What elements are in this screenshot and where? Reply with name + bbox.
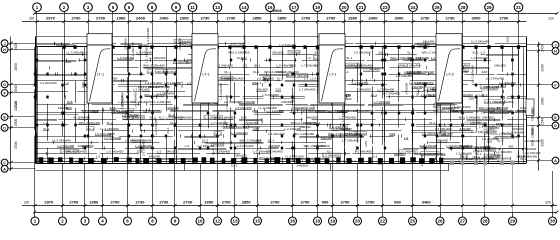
svg-text:240x500: 240x500 bbox=[359, 88, 371, 92]
svg-text:240x500: 240x500 bbox=[145, 160, 157, 164]
svg-text:240x500: 240x500 bbox=[167, 106, 179, 110]
grid bubble top 14 bbox=[240, 3, 249, 14]
svg-text:27: 27 bbox=[460, 219, 466, 224]
grid bubble bottom 9 bbox=[171, 212, 179, 225]
svg-text:L-3: L-3 bbox=[243, 63, 248, 67]
svg-text:13726: 13726 bbox=[14, 101, 18, 111]
svg-text:2000: 2000 bbox=[541, 97, 545, 105]
svg-text:14: 14 bbox=[241, 5, 247, 10]
svg-text:2790: 2790 bbox=[499, 16, 509, 21]
svg-text:L-2 240x400: L-2 240x400 bbox=[237, 144, 254, 148]
svg-text:L-3: L-3 bbox=[481, 50, 486, 54]
svg-text:L-5 240x450: L-5 240x450 bbox=[262, 93, 279, 97]
svg-text:2700: 2700 bbox=[183, 199, 193, 204]
grid bubble top 19 bbox=[313, 3, 322, 14]
svg-text:10: 10 bbox=[197, 219, 203, 224]
svg-text:2700: 2700 bbox=[111, 199, 121, 204]
svg-text:WKL-2 240x450: WKL-2 240x450 bbox=[399, 64, 421, 68]
grid bubble right J bbox=[526, 42, 559, 49]
svg-text:240x450: 240x450 bbox=[78, 144, 90, 148]
svg-text:TL-2: TL-2 bbox=[324, 159, 330, 163]
svg-text:18: 18 bbox=[315, 219, 321, 224]
svg-text:22: 22 bbox=[380, 219, 386, 224]
svg-text:220: 220 bbox=[548, 17, 554, 21]
svg-text:XL-1: XL-1 bbox=[202, 139, 209, 143]
grid bubble top 1 bbox=[33, 3, 42, 14]
svg-text:L-1 240x450: L-1 240x450 bbox=[157, 91, 174, 95]
svg-text:L-3: L-3 bbox=[299, 106, 304, 110]
grid bubble top 26 bbox=[433, 3, 442, 14]
svg-text:L-3: L-3 bbox=[373, 155, 378, 159]
svg-text:WKL-2 240x450: WKL-2 240x450 bbox=[459, 115, 481, 119]
svg-text:2400: 2400 bbox=[160, 16, 170, 21]
grid bubble right A bbox=[526, 157, 559, 164]
svg-text:1650: 1650 bbox=[204, 199, 214, 204]
svg-text:2|18: 2|18 bbox=[496, 122, 502, 126]
svg-text:D: D bbox=[554, 124, 557, 128]
grid bubble left D bbox=[1, 124, 35, 131]
svg-text:TL-1: TL-1 bbox=[58, 159, 64, 163]
grid bubble top 6 bbox=[125, 3, 134, 14]
svg-text:17: 17 bbox=[291, 5, 297, 10]
svg-text:3300: 3300 bbox=[14, 141, 18, 149]
svg-text:XL-1: XL-1 bbox=[255, 81, 262, 85]
columns along top wall bbox=[62, 45, 520, 49]
svg-text:TL-1: TL-1 bbox=[297, 159, 303, 163]
right dim tick bbox=[537, 116, 540, 119]
svg-text:240x500: 240x500 bbox=[306, 115, 318, 119]
grid bubble top 21 bbox=[357, 3, 366, 14]
right rotated dim numbers bbox=[541, 44, 545, 147]
svg-text:XL-1: XL-1 bbox=[474, 155, 480, 159]
svg-text:H: H bbox=[3, 48, 6, 52]
svg-text:2700: 2700 bbox=[96, 16, 106, 21]
svg-text:LL-3 240x450: LL-3 240x450 bbox=[52, 138, 71, 142]
svg-text:2730: 2730 bbox=[446, 16, 456, 21]
svg-text:LL-3 240x450: LL-3 240x450 bbox=[519, 155, 537, 159]
svg-text:T-1: T-1 bbox=[83, 159, 87, 163]
svg-text:16: 16 bbox=[267, 5, 273, 10]
svg-text:WKL-2 240x450: WKL-2 240x450 bbox=[293, 106, 315, 110]
svg-text:L-2 240x400: L-2 240x400 bbox=[216, 63, 233, 67]
left vertical dimension line 13726 bbox=[10, 37, 12, 171]
svg-text:XL-1: XL-1 bbox=[225, 76, 232, 80]
svg-text:240x500: 240x500 bbox=[180, 43, 192, 47]
svg-text:2790: 2790 bbox=[341, 199, 351, 204]
svg-text:2850: 2850 bbox=[253, 16, 263, 21]
svg-text:2790: 2790 bbox=[301, 199, 311, 204]
grid bubble bottom 26 bbox=[436, 212, 444, 225]
svg-text:WKL-2 240x450: WKL-2 240x450 bbox=[293, 132, 315, 136]
grid bubble bottom 13 bbox=[231, 212, 239, 225]
svg-text:L-3: L-3 bbox=[513, 135, 518, 139]
grid bubble top 8 bbox=[148, 3, 157, 14]
small interior dimension marks bbox=[47, 42, 521, 160]
svg-text:QL-1: QL-1 bbox=[268, 138, 275, 142]
left dim tick bbox=[10, 48, 13, 51]
right side bay window protrusion bbox=[526, 99, 534, 116]
svg-text:L-2 240x400: L-2 240x400 bbox=[268, 132, 285, 136]
stair shaft LT-3 bbox=[436, 34, 462, 103]
svg-text:240x500: 240x500 bbox=[485, 131, 496, 135]
svg-text:29: 29 bbox=[486, 5, 492, 10]
grid bubble top 23 bbox=[381, 3, 390, 14]
svg-text:1650: 1650 bbox=[89, 199, 99, 204]
svg-text:L-1 240x450: L-1 240x450 bbox=[149, 56, 166, 60]
svg-text:3300: 3300 bbox=[541, 139, 545, 147]
svg-text:WKL-2 240x450: WKL-2 240x450 bbox=[149, 100, 171, 104]
svg-text:LL-3 240x450: LL-3 240x450 bbox=[100, 127, 119, 131]
svg-text:L-2 240x400: L-2 240x400 bbox=[231, 131, 248, 135]
balcony lower outline bbox=[36, 170, 450, 172]
svg-text:J: J bbox=[4, 42, 6, 46]
svg-text:26: 26 bbox=[434, 5, 440, 10]
svg-text:WKL-2 240x450: WKL-2 240x450 bbox=[489, 157, 510, 161]
grid bubble bottom 1 bbox=[31, 212, 39, 225]
svg-text:2400: 2400 bbox=[369, 16, 379, 21]
svg-text:28: 28 bbox=[482, 219, 488, 224]
svg-text:TL-2: TL-2 bbox=[309, 159, 315, 163]
left dim tick bbox=[10, 161, 13, 164]
svg-text:XL-1: XL-1 bbox=[159, 115, 166, 119]
left dim tick bbox=[10, 83, 13, 86]
interior dimension chain right section bbox=[452, 148, 523, 150]
svg-text:QL-1: QL-1 bbox=[292, 154, 296, 161]
svg-text:L-3: L-3 bbox=[481, 110, 486, 114]
grid bubble bottom 28 bbox=[481, 212, 489, 225]
svg-text:L-7 240x400: L-7 240x400 bbox=[266, 149, 283, 153]
grid bubble top 20 bbox=[340, 3, 349, 14]
svg-text:2730: 2730 bbox=[201, 16, 211, 21]
svg-text:21: 21 bbox=[358, 5, 364, 10]
svg-text:LL-3 240x450: LL-3 240x450 bbox=[471, 39, 490, 43]
svg-text:L-2 240x400: L-2 240x400 bbox=[243, 125, 260, 129]
svg-text:L-2 240x400: L-2 240x400 bbox=[396, 74, 413, 78]
svg-text:13: 13 bbox=[232, 219, 238, 224]
grid bubble left H bbox=[1, 46, 35, 53]
svg-text:1540: 1540 bbox=[541, 118, 545, 126]
svg-text:L-1 240x450: L-1 240x450 bbox=[145, 46, 149, 63]
right side annotation cluster bbox=[454, 95, 541, 161]
svg-text:QL-1: QL-1 bbox=[211, 148, 215, 155]
svg-text:31: 31 bbox=[516, 5, 522, 10]
top dimension line with segment dims bbox=[22, 21, 527, 23]
svg-text:L-2 240x400: L-2 240x400 bbox=[40, 81, 57, 85]
grid bubble bottom 16 bbox=[289, 212, 297, 225]
svg-text:990: 990 bbox=[322, 199, 329, 204]
svg-text:LL-3 240x450: LL-3 240x450 bbox=[259, 106, 278, 110]
svg-text:L-1 240x450: L-1 240x450 bbox=[496, 150, 512, 154]
svg-text:LL-3 240x450: LL-3 240x450 bbox=[146, 27, 150, 46]
grid bubble bottom 4 bbox=[99, 212, 107, 225]
svg-text:XL-1: XL-1 bbox=[346, 56, 353, 60]
svg-text:29: 29 bbox=[510, 219, 516, 224]
svg-text:L-2 240x400: L-2 240x400 bbox=[481, 85, 498, 89]
grid bubble top 5 bbox=[109, 3, 118, 14]
svg-text:XL-1: XL-1 bbox=[166, 127, 170, 134]
svg-text:QL-1: QL-1 bbox=[378, 50, 385, 54]
svg-text:XL-1: XL-1 bbox=[407, 50, 414, 54]
svg-text:240x450: 240x450 bbox=[281, 100, 293, 104]
svg-text:2790: 2790 bbox=[366, 199, 376, 204]
svg-text:980: 980 bbox=[509, 145, 514, 149]
grid bubble left F bbox=[1, 90, 35, 97]
svg-text:QL-1: QL-1 bbox=[416, 89, 420, 96]
svg-text:D: D bbox=[3, 126, 6, 130]
grid bubble left C bbox=[1, 159, 35, 166]
svg-text:T-1: T-1 bbox=[138, 159, 142, 163]
bottom dimension ticks and numbers bbox=[34, 199, 555, 207]
svg-text:240x450: 240x450 bbox=[321, 136, 333, 140]
svg-text:19: 19 bbox=[330, 219, 336, 224]
svg-text:WKL-2 240x450: WKL-2 240x450 bbox=[228, 50, 250, 54]
svg-text:240x500: 240x500 bbox=[58, 106, 70, 110]
svg-text:L-2 240x400: L-2 240x400 bbox=[456, 152, 472, 156]
svg-text:L-2 240x400: L-2 240x400 bbox=[471, 56, 488, 60]
grid bubble bottom 12 bbox=[214, 212, 222, 225]
svg-text:TL-1: TL-1 bbox=[332, 159, 338, 163]
svg-text:QL-1: QL-1 bbox=[87, 127, 94, 131]
svg-text:WKL-2 240x450: WKL-2 240x450 bbox=[259, 156, 281, 160]
svg-text:XL-1: XL-1 bbox=[277, 76, 284, 80]
svg-text:220: 220 bbox=[545, 200, 551, 204]
svg-text:L-7 240x400: L-7 240x400 bbox=[341, 105, 345, 122]
svg-text:QL-1: QL-1 bbox=[254, 63, 261, 67]
svg-text:240x500: 240x500 bbox=[289, 51, 301, 55]
grid bubble left J bbox=[1, 40, 35, 47]
svg-text:240x450: 240x450 bbox=[299, 125, 311, 129]
svg-text:L-3: L-3 bbox=[404, 136, 409, 140]
left dim tick bbox=[10, 42, 13, 45]
svg-text:LL-3 240x450: LL-3 240x450 bbox=[471, 65, 475, 84]
svg-text:240x500: 240x500 bbox=[166, 150, 178, 154]
svg-text:240x450: 240x450 bbox=[412, 85, 424, 89]
vertical grid leader lines from top bubbles through plan bbox=[37, 13, 519, 163]
svg-text:C: C bbox=[3, 161, 6, 165]
svg-text:2700: 2700 bbox=[69, 199, 79, 204]
svg-text:2|18: 2|18 bbox=[482, 70, 488, 74]
svg-text:H: H bbox=[554, 50, 557, 54]
svg-text:13: 13 bbox=[215, 5, 221, 10]
svg-text:240x450: 240x450 bbox=[79, 115, 91, 119]
svg-text:LL-3 240x450: LL-3 240x450 bbox=[475, 94, 479, 113]
grid bubble left A bbox=[1, 165, 35, 172]
svg-text:L-7 240x400: L-7 240x400 bbox=[383, 91, 400, 95]
svg-text:L-3: L-3 bbox=[489, 109, 494, 113]
svg-text:2700: 2700 bbox=[326, 16, 336, 21]
svg-text:3000: 3000 bbox=[395, 16, 405, 21]
svg-text:28: 28 bbox=[460, 5, 466, 10]
svg-text:26: 26 bbox=[437, 219, 443, 224]
right vertical dimension line bbox=[538, 42, 540, 171]
svg-text:20: 20 bbox=[355, 219, 361, 224]
svg-text:L-3: L-3 bbox=[306, 56, 311, 60]
svg-text:3460: 3460 bbox=[422, 199, 432, 204]
svg-text:2790: 2790 bbox=[222, 199, 232, 204]
svg-text:L-5 240x450: L-5 240x450 bbox=[133, 92, 137, 109]
svg-text:2000: 2000 bbox=[531, 139, 535, 146]
svg-text:3000: 3000 bbox=[472, 16, 482, 21]
grid bubble right H bbox=[526, 48, 559, 55]
overall bottom dimension line bbox=[35, 212, 557, 214]
svg-text:220: 220 bbox=[29, 17, 35, 21]
svg-text:QL-1: QL-1 bbox=[224, 70, 231, 74]
svg-text:240x500: 240x500 bbox=[214, 160, 226, 164]
grid bubble top 24 bbox=[409, 3, 418, 14]
grid bubble left G bbox=[1, 81, 35, 88]
svg-text:L-1 240x450: L-1 240x450 bbox=[510, 109, 526, 113]
svg-text:LL-3 240x450: LL-3 240x450 bbox=[495, 100, 514, 104]
svg-text:XL-1: XL-1 bbox=[253, 70, 260, 74]
svg-text:240x500: 240x500 bbox=[235, 153, 247, 157]
right dim tick bbox=[537, 124, 540, 127]
svg-text:2970: 2970 bbox=[46, 16, 56, 21]
svg-text:L-3: L-3 bbox=[185, 144, 190, 148]
svg-text:T-1: T-1 bbox=[44, 159, 48, 163]
grid bubble top 9 bbox=[172, 3, 181, 14]
grid bubble left E bbox=[1, 114, 35, 121]
svg-text:240x500: 240x500 bbox=[256, 87, 268, 91]
svg-text:L-5 240x450: L-5 240x450 bbox=[61, 150, 78, 154]
svg-text:L-1 240x450: L-1 240x450 bbox=[482, 137, 498, 141]
svg-text:WKL-2 240x450: WKL-2 240x450 bbox=[287, 74, 309, 78]
vertical grid leader lines from bottom bubbles up to plan bbox=[35, 164, 553, 213]
svg-text:LT-3: LT-3 bbox=[446, 73, 453, 77]
grid bubble bottom 19 bbox=[329, 212, 337, 225]
grid bubble bottom 20 bbox=[354, 212, 362, 225]
svg-text:240x450: 240x450 bbox=[418, 43, 430, 47]
svg-text:L-2 240x400: L-2 240x400 bbox=[57, 144, 74, 148]
svg-text:30: 30 bbox=[550, 219, 556, 224]
svg-text:L-5 240x450: L-5 240x450 bbox=[235, 106, 252, 110]
building outline outer walls bbox=[36, 36, 527, 38]
svg-text:J: J bbox=[554, 44, 556, 48]
svg-text:2|18: 2|18 bbox=[81, 82, 85, 88]
svg-text:L-7 240x400: L-7 240x400 bbox=[225, 95, 229, 112]
svg-text:2|18: 2|18 bbox=[364, 141, 368, 147]
svg-text:QL-1: QL-1 bbox=[263, 77, 270, 81]
svg-text:XL-1: XL-1 bbox=[168, 113, 175, 117]
svg-text:L-2 240x400: L-2 240x400 bbox=[121, 92, 125, 109]
interior wall lines (vertical) bbox=[35, 47, 519, 164]
left dim tick bbox=[10, 91, 13, 94]
svg-text:2850: 2850 bbox=[278, 16, 288, 21]
svg-text:T-1: T-1 bbox=[188, 159, 192, 163]
svg-text:LL-3 240x450: LL-3 240x450 bbox=[486, 76, 505, 80]
svg-text:2730: 2730 bbox=[421, 16, 431, 21]
svg-text:240x500: 240x500 bbox=[164, 70, 176, 74]
svg-text:QL-1: QL-1 bbox=[501, 131, 508, 135]
svg-text:220: 220 bbox=[24, 200, 30, 204]
svg-text:1980: 1980 bbox=[117, 16, 127, 21]
svg-text:1000: 1000 bbox=[180, 16, 190, 21]
svg-text:L-1 240x450: L-1 240x450 bbox=[154, 118, 158, 135]
svg-text:L-3: L-3 bbox=[456, 160, 461, 164]
stair shaft LT-1 bbox=[87, 34, 112, 103]
svg-text:L-5 240x450: L-5 240x450 bbox=[95, 132, 112, 136]
svg-text:15: 15 bbox=[255, 219, 261, 224]
svg-text:16: 16 bbox=[290, 219, 296, 224]
svg-text:A: A bbox=[554, 159, 557, 163]
svg-text:XL-1: XL-1 bbox=[472, 50, 479, 54]
svg-text:240x450: 240x450 bbox=[355, 132, 367, 136]
stair shaft LT-1 bbox=[192, 34, 218, 103]
svg-text:T-1: T-1 bbox=[240, 159, 244, 163]
svg-text:2850: 2850 bbox=[242, 199, 252, 204]
svg-text:25: 25 bbox=[410, 219, 416, 224]
svg-text:240x450: 240x450 bbox=[420, 154, 424, 166]
svg-text:2040: 2040 bbox=[14, 85, 18, 93]
svg-text:L-5 240x450: L-5 240x450 bbox=[454, 105, 470, 109]
svg-text:2790: 2790 bbox=[271, 199, 281, 204]
svg-text:240x500: 240x500 bbox=[296, 163, 308, 167]
right dim tick bbox=[537, 159, 540, 162]
svg-text:240x500: 240x500 bbox=[405, 82, 409, 94]
svg-text:L-2 240x400: L-2 240x400 bbox=[363, 67, 380, 71]
svg-text:24: 24 bbox=[410, 5, 416, 10]
svg-text:2400: 2400 bbox=[136, 16, 146, 21]
svg-text:L-7 240x400: L-7 240x400 bbox=[104, 136, 121, 140]
svg-text:240x500: 240x500 bbox=[272, 50, 284, 54]
svg-text:XL-1: XL-1 bbox=[429, 121, 436, 125]
svg-text:240x500: 240x500 bbox=[482, 115, 494, 119]
svg-text:23: 23 bbox=[382, 5, 388, 10]
svg-text:L-3: L-3 bbox=[157, 149, 162, 153]
svg-text:LT-1: LT-1 bbox=[202, 73, 209, 77]
svg-text:L-5 240x450: L-5 240x450 bbox=[421, 152, 438, 156]
svg-text:2730: 2730 bbox=[226, 16, 236, 21]
bottom dimension line with segment dims bbox=[22, 205, 557, 207]
svg-text:QL-1: QL-1 bbox=[318, 109, 325, 113]
beam annotation texts bbox=[40, 27, 524, 167]
svg-text:2700: 2700 bbox=[301, 16, 311, 21]
svg-text:L-5 240x450: L-5 240x450 bbox=[107, 149, 124, 153]
grid bubble top 13 bbox=[213, 3, 222, 14]
svg-text:QL-1: QL-1 bbox=[215, 132, 222, 136]
svg-text:LT-1: LT-1 bbox=[97, 73, 104, 77]
svg-text:L-7 240x400: L-7 240x400 bbox=[437, 106, 454, 110]
left dim tick bbox=[10, 116, 13, 119]
svg-text:QL-1: QL-1 bbox=[502, 95, 509, 99]
svg-text:XL-1: XL-1 bbox=[354, 146, 358, 153]
svg-text:2|18: 2|18 bbox=[275, 87, 281, 91]
overall top dimension line 59008 bbox=[35, 13, 557, 15]
svg-text:XL-1: XL-1 bbox=[463, 67, 470, 71]
grid bubble bottom 22 bbox=[379, 212, 387, 225]
grid bubble bottom 8 bbox=[149, 212, 157, 225]
svg-text:L-7 240x400: L-7 240x400 bbox=[299, 87, 316, 91]
svg-text:L-1 240x450: L-1 240x450 bbox=[131, 42, 135, 59]
svg-text:240x500: 240x500 bbox=[213, 142, 225, 146]
grid bubble bottom 3 bbox=[81, 212, 89, 225]
right dim tick bbox=[537, 84, 540, 87]
svg-text:990: 990 bbox=[394, 199, 401, 204]
svg-text:L-2 240x400: L-2 240x400 bbox=[465, 121, 481, 125]
svg-text:L-5 240x450: L-5 240x450 bbox=[219, 83, 223, 100]
svg-text:240x450: 240x450 bbox=[436, 138, 448, 142]
left dim tick bbox=[10, 126, 13, 129]
svg-text:LL-3 240x450: LL-3 240x450 bbox=[243, 35, 247, 54]
svg-text:L-2 240x400: L-2 240x400 bbox=[175, 40, 192, 44]
grid bubble top 17 bbox=[290, 3, 299, 14]
svg-text:TL-1: TL-1 bbox=[93, 159, 99, 163]
svg-text:2730: 2730 bbox=[159, 199, 169, 204]
svg-text:L-5 240x450: L-5 240x450 bbox=[354, 50, 371, 54]
columns along bottom wall bbox=[39, 157, 444, 164]
grid bubble bottom 25 bbox=[409, 212, 417, 225]
svg-text:L-7 240x400: L-7 240x400 bbox=[342, 139, 359, 143]
svg-text:2|18: 2|18 bbox=[241, 115, 247, 119]
